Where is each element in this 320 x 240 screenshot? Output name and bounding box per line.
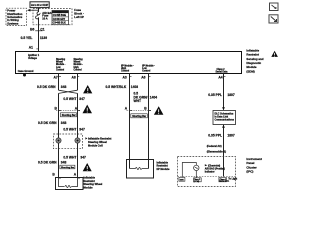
wire label 0.5 YEL 1139 — [21, 36, 48, 40]
label Class 2 Serial Data — [216, 69, 229, 74]
svg-text:C3=NB BLK: C3=NB BLK — [53, 23, 66, 25]
svg-text:Voltage: Voltage — [28, 57, 37, 60]
nav icon top-right 1 — [270, 3, 279, 11]
SDM box — [16, 52, 242, 74]
svg-text:347: 347 — [80, 155, 86, 159]
wire lamp to uP box — [195, 171, 197, 178]
svg-text:Control: Control — [121, 70, 130, 73]
svg-text:Case Ground: Case Ground — [18, 70, 34, 73]
terminal A7 — [54, 75, 62, 79]
svg-text:I/P Module: I/P Module — [157, 167, 170, 171]
svg-text:347: 347 — [79, 97, 85, 101]
svg-text:Communications: Communications — [215, 118, 235, 121]
terminal A8 — [72, 75, 80, 79]
label Fuse Block - Left I/P — [74, 8, 84, 19]
wire 348 to connector — [58, 93, 60, 110]
svg-text:Steering: Steering — [74, 58, 84, 61]
svg-text:Shorting Bar: Shorting Bar — [61, 166, 74, 169]
connector at steering wheel module (B / A) — [52, 172, 80, 178]
label I/P Module High Control — [121, 65, 134, 72]
svg-text:0.5 DK GRN: 0.5 DK GRN — [38, 121, 57, 125]
connector mid column (A / B) — [125, 107, 151, 111]
svg-text:Left I/P: Left I/P — [74, 15, 84, 19]
svg-text:A3: A3 — [123, 75, 127, 79]
label Inflatable Restraint Steering Wheel Module Coil — [85, 137, 111, 148]
svg-text:A6: A6 — [141, 75, 145, 79]
svg-text:(CCM): (CCM) — [194, 181, 200, 183]
warning triangle T4 — [154, 106, 164, 115]
label Steering Wheel Module High Control — [74, 58, 84, 71]
svg-text:Shorting Bar: Shorting Bar — [62, 114, 76, 117]
wire A3 down (0.5 WHT/BLK 1403) — [129, 74, 131, 111]
IGN terminal box — [179, 177, 185, 181]
fuse block connector table — [52, 11, 69, 25]
shorting bar (upper) — [61, 113, 77, 117]
terminal A6 — [141, 75, 150, 79]
svg-text:1807: 1807 — [227, 134, 235, 138]
label I/P Module Low Control — [142, 65, 155, 72]
squib (I/P module) — [130, 167, 149, 169]
shorting bar (mid) — [131, 114, 148, 118]
coil contact left — [56, 138, 61, 143]
svg-text:Steering Wheel: Steering Wheel — [88, 140, 107, 144]
svg-text:1403: 1403 — [131, 85, 139, 89]
wire 347 to connector — [77, 93, 79, 110]
svg-text:IGN: IGN — [180, 180, 184, 182]
wire label 0.5 WHT 347 (2nd) — [63, 128, 85, 132]
wire label 0.5 WHT 347 — [63, 97, 85, 101]
wire A7 down (0.5 DK GRN 348) — [58, 74, 60, 91]
svg-text:Shorting Bar: Shorting Bar — [132, 115, 146, 118]
indicator label with flag — [205, 164, 225, 173]
svg-text:A7: A7 — [54, 75, 58, 79]
class 2 serial data terminal box — [219, 177, 230, 182]
warning triangle T5 — [271, 51, 278, 57]
svg-text:A1: A1 — [29, 45, 33, 49]
svg-text:Systems: Systems — [7, 21, 19, 25]
warning triangle T1 — [83, 85, 92, 93]
fuse block dashed box — [33, 8, 72, 24]
wire A8 down (0.5 WHT 347) — [77, 74, 79, 91]
svg-text:Class 2: Class 2 — [217, 69, 226, 71]
svg-text:347: 347 — [79, 128, 85, 132]
svg-text:348: 348 — [61, 161, 67, 165]
svg-text:(Chevrolet): (Chevrolet) — [208, 165, 220, 168]
svg-text:C1=NB BGE: C1=NB BGE — [53, 15, 67, 17]
arrowhead up into DLC box — [222, 125, 225, 128]
wire 348 down to coil — [58, 111, 60, 138]
label Inflatable Restraint I/P Module — [157, 160, 170, 171]
svg-text:A4: A4 — [218, 75, 222, 79]
svg-text:0.35 PPL: 0.35 PPL — [208, 134, 222, 138]
IPC dashed box — [178, 157, 236, 187]
svg-text:0.5 WHT: 0.5 WHT — [63, 128, 76, 132]
wire 347 down to coil — [77, 111, 79, 138]
wire label 0.5 DK GRN/WHT 1404 — [134, 92, 158, 104]
DLC schematics box — [213, 111, 236, 125]
wire label 0.35 PPL 1807 (upper) — [208, 93, 235, 97]
svg-text:348: 348 — [61, 85, 67, 89]
label Instrument Panel Cluster (IPC) — [246, 157, 262, 174]
terminal A3 — [123, 75, 132, 79]
svg-text:Serial Data: Serial Data — [216, 71, 229, 74]
wire from IPC up to DLC box — [223, 125, 225, 177]
wire 1404 down to I/P module — [148, 111, 150, 169]
connector C2 steering column (B / A) — [55, 107, 81, 111]
svg-text:1404: 1404 — [150, 95, 158, 99]
Hot in ON or START box — [30, 2, 49, 8]
arrowhead into DLC box — [222, 107, 225, 110]
svg-text:FUSES: FUSES — [55, 12, 63, 14]
label Steering Wheel Module Low Control — [56, 58, 66, 71]
connector B6 / C1 — [30, 27, 45, 31]
svg-text:C2=06 GRY: C2=06 GRY — [53, 19, 66, 21]
svg-text:0.5 WHT: 0.5 WHT — [63, 155, 76, 159]
fuse AIR BAG 10A — [36, 11, 54, 20]
svg-text:A: A — [74, 172, 77, 176]
inflatable restraint I/P module box — [127, 160, 154, 179]
svg-text:A: A — [125, 107, 128, 111]
terminal A4 — [218, 75, 225, 79]
svg-text:0.35 PPL: 0.35 PPL — [208, 93, 222, 97]
wire A6 down (0.5 DK GRN/WHT 1404) — [148, 74, 150, 111]
warning triangle T2 — [83, 105, 93, 114]
wire 347 below coil — [77, 143, 79, 177]
label Inflatable Restraint Sensing and Diagnostic Module (SDM) — [246, 48, 263, 73]
squib (steering wheel module) — [59, 178, 78, 188]
svg-text:Indicator: Indicator — [205, 171, 215, 174]
svg-text:Hot in ON or START: Hot in ON or START — [31, 3, 49, 7]
svg-text:0.5 DK GRN: 0.5 DK GRN — [37, 85, 56, 89]
svg-text:A8: A8 — [72, 75, 76, 79]
svg-text:Control: Control — [74, 68, 83, 71]
svg-text:1139: 1139 — [40, 36, 47, 40]
svg-text:Control: Control — [56, 68, 65, 71]
svg-text:WHT: WHT — [134, 99, 142, 103]
svg-text:0.5 WHT: 0.5 WHT — [63, 97, 76, 101]
svg-text:0.5 WHT/BLK: 0.5 WHT/BLK — [106, 85, 127, 89]
svg-text:(Federal A9): (Federal A9) — [207, 144, 222, 148]
svg-text:To Light: To Light — [228, 177, 237, 180]
shorting bar (lower) — [60, 165, 75, 169]
warning triangle T3 — [83, 163, 92, 171]
wire label 0.5 WHT 347 (3rd) — [63, 155, 86, 159]
svg-text:B: B — [144, 107, 147, 111]
wire IGN to lamp — [182, 163, 196, 178]
reference dashed box: Power Distribution Schematics in Wiring Systems — [6, 8, 27, 25]
svg-text:Module: Module — [84, 186, 94, 190]
svg-text:AIR BAG (Pontiac): AIR BAG (Pontiac) — [205, 168, 225, 171]
nav icon top-right 2 — [269, 15, 278, 23]
svg-text:Module Coil: Module Coil — [88, 144, 103, 148]
label Case Ground + stud dot — [18, 70, 34, 77]
inflatable restraint steering wheel module box — [56, 178, 84, 190]
svg-text:10 A: 10 A — [42, 16, 48, 20]
svg-text:B: B — [52, 172, 55, 176]
svg-text:348: 348 — [61, 121, 67, 125]
IPC internal dashed rail — [178, 176, 236, 178]
uP terminal box — [194, 178, 202, 183]
wire label 0.5 WHT/BLK 1403 — [106, 85, 139, 89]
wire label 0.35 PPL 1807 (lower) — [208, 134, 235, 138]
svg-text:(SDM): (SDM) — [246, 69, 254, 73]
arrow into reference box — [27, 9, 39, 12]
svg-text:C1: C1 — [40, 27, 44, 31]
wire label 0.5 DK GRN 348 (2nd) — [38, 121, 66, 125]
svg-text:B: B — [55, 107, 58, 111]
svg-text:0.5 DK GRN: 0.5 DK GRN — [38, 161, 57, 165]
steering wheel module coil dashed box — [53, 134, 82, 149]
wire from hot box to fuse — [38, 8, 40, 12]
label Ignition 1 Voltage — [28, 54, 40, 60]
wire label 0.5 DK GRN 348 (3rd) — [38, 161, 66, 165]
wire fuse to SDM (0.5 YEL 1139) — [38, 17, 40, 51]
svg-text:Control: Control — [142, 70, 151, 73]
svg-text:B6: B6 — [30, 27, 34, 31]
coil contact right — [75, 138, 80, 143]
twisted pair crossover — [59, 90, 78, 93]
wire A4 down (0.35 PPL 1807) — [223, 74, 225, 110]
terminal A1 — [29, 45, 39, 49]
AIR BAG indicator lamp — [194, 165, 199, 170]
svg-text:1807: 1807 — [227, 93, 235, 97]
svg-text:0.5 YEL: 0.5 YEL — [21, 36, 33, 40]
wire label 0.5 DK GRN 348 — [37, 85, 66, 89]
svg-text:(IPC): (IPC) — [246, 170, 253, 174]
svg-text:Inflatable Restraint: Inflatable Restraint — [88, 137, 111, 141]
wire 348 below coil — [58, 143, 60, 177]
wire 1403 down to I/P module — [129, 111, 131, 169]
label Inflatable Restraint Steering Wheel Module — [84, 176, 103, 190]
svg-text:Steering: Steering — [56, 58, 66, 61]
svg-text:(Slavemobile B): (Slavemobile B) — [207, 150, 227, 154]
